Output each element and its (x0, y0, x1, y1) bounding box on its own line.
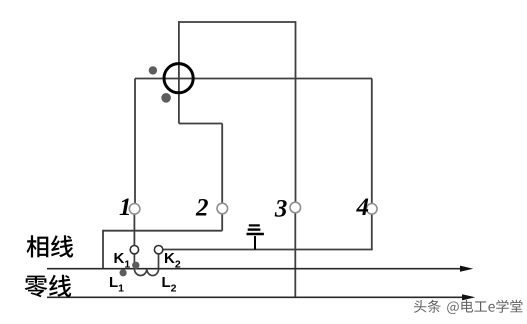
CT polarity dot (below core) (161, 93, 171, 103)
wire: terminal 4 lower vertical to K2 line (371, 214, 373, 250)
wire: terminal 3 lower vertical to neutral line (294, 213, 296, 297)
wire: terminal 1 lower vertical to K1 (133, 214, 135, 246)
wire: terminal 4 upper vertical (371, 79, 373, 204)
svg-text:L2: L2 (162, 274, 177, 295)
svg-text:2: 2 (195, 195, 209, 222)
label: 零线 (neutral line) (25, 275, 72, 298)
wire: left branch vertical to phase line (102, 230, 104, 269)
wire: K2 to terminal 4 horizontal (163, 249, 373, 251)
wire: phase conductor through CT (horizontal) (135, 78, 372, 80)
svg-text:L1: L1 (109, 274, 124, 295)
wire: left vertical through CT circle (178, 21, 180, 123)
wire: right vertical from top edge to terminal 3 (295, 21, 297, 202)
wire: terminal 2 branch horizontal (103, 230, 222, 232)
meter terminal 4 (circle) (367, 204, 378, 215)
svg-text:3: 3 (274, 195, 288, 222)
CT primary loops on phase line (134, 269, 158, 276)
polarity dot near K1 above phase line (132, 262, 139, 269)
neutral line (零线) with arrow (47, 296, 463, 298)
wire: jog from CT vertical to terminal 2 column (179, 123, 222, 125)
wire: K2 drop to phase line (158, 254, 160, 269)
meter terminal 1 (circle) (129, 204, 140, 215)
meter terminal 2 (circle) (217, 203, 228, 214)
CT secondary terminal K1 (circle) (130, 246, 138, 254)
svg-text:K2: K2 (164, 250, 181, 271)
label: 相线 (phase line) (27, 235, 74, 257)
meter terminal 3 (circle) (290, 202, 301, 213)
ground symbol (earth) (247, 225, 264, 249)
phase line (相线) with arrow (47, 268, 461, 270)
wire: K1 drop to phase line (133, 254, 135, 269)
wire: terminal 2 upper vertical (221, 124, 223, 204)
svg-text:1: 1 (119, 194, 132, 221)
CT polarity dot (top left of core) (149, 66, 157, 74)
watermark: 头条 @电工e学堂 (414, 300, 524, 315)
wire: terminal 1 upper vertical (134, 79, 136, 204)
svg-text:K1: K1 (114, 250, 131, 271)
polarity dot L1 below phase line (120, 269, 127, 276)
svg-text:4: 4 (355, 194, 369, 221)
wire: terminal 2 lower vertical (221, 214, 223, 231)
wire: meter loop top edge (179, 21, 296, 23)
current transformer CT core (circle) (164, 64, 193, 93)
CT secondary terminal K2 (circle) (154, 246, 162, 254)
